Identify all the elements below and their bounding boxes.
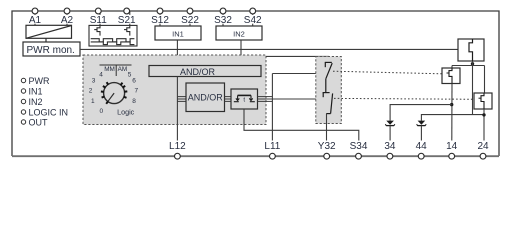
diode D2	[417, 121, 427, 141]
wire relay output to Y32	[326, 114, 328, 141]
svg-text:34: 34	[384, 141, 396, 152]
terminal A2	[61, 8, 74, 26]
wire PWR mon to output driver	[80, 48, 470, 50]
svg-text:S21: S21	[118, 15, 136, 26]
wire 34 branch	[390, 105, 452, 121]
wire S32 stub	[222, 11, 224, 26]
svg-text:1: 1	[91, 98, 95, 105]
wire A2 stub	[66, 11, 68, 25]
wire S42 stub	[252, 11, 254, 26]
svg-text:3: 3	[92, 77, 96, 84]
enclosure outline	[12, 11, 499, 156]
junction dot Q1 out	[471, 62, 474, 65]
input block IN2	[216, 26, 262, 40]
wire S12 stub	[159, 11, 161, 26]
LED IN2	[21, 97, 42, 107]
terminal 24	[477, 141, 490, 159]
terminal L11	[264, 141, 281, 159]
wire A1 stub	[34, 11, 36, 25]
svg-text:OUT: OUT	[29, 117, 49, 127]
svg-text:L12: L12	[169, 141, 186, 152]
wire IN1 to AND/OR	[176, 40, 178, 66]
transistor switch S11	[97, 25, 100, 35]
svg-text:Logic: Logic	[117, 107, 135, 116]
logic unit shaded area	[83, 55, 266, 125]
svg-text:IN2: IN2	[29, 97, 43, 107]
svg-text:AND/OR: AND/OR	[188, 93, 224, 103]
wire S22 stub	[189, 11, 191, 26]
junction dot 24/44	[482, 113, 485, 116]
relay contact K1	[325, 62, 332, 92]
svg-text:A2: A2	[61, 15, 74, 26]
terminal A1	[29, 8, 42, 26]
terminal S34	[350, 141, 368, 159]
output switch Q2	[442, 68, 460, 84]
terminal S42	[244, 8, 262, 26]
test pulse waveform A	[91, 39, 135, 42]
svg-text:14: 14	[446, 141, 458, 152]
output driver Q1	[458, 39, 484, 61]
bus lines AND/OR2 to timer	[225, 97, 232, 102]
svg-text:S12: S12	[151, 15, 169, 26]
LED OUT	[21, 117, 48, 127]
wire AND/OR1 to AND/OR2 and L12	[176, 77, 178, 141]
terminal 44	[415, 141, 428, 159]
svg-text:S32: S32	[214, 15, 232, 26]
diode D1	[385, 121, 395, 141]
terminal S12	[151, 8, 169, 26]
svg-text:0: 0	[99, 108, 103, 115]
svg-text:Y32: Y32	[318, 141, 336, 152]
terminal S11	[90, 8, 107, 26]
svg-text:LOGIC IN: LOGIC IN	[29, 107, 69, 117]
svg-text:IN2: IN2	[233, 29, 245, 38]
output switch Q3	[474, 93, 492, 109]
wire S11 stub	[99, 11, 101, 25]
bus lines into AND/OR 2	[177, 97, 186, 102]
svg-text:6: 6	[132, 77, 136, 84]
terminal S22	[181, 8, 199, 26]
selector ticks	[101, 82, 127, 104]
svg-text:MM: MM	[104, 66, 115, 73]
wire IN2 to AND/OR	[240, 40, 242, 66]
power supply unit A1/A2	[26, 25, 72, 42]
MM/AM header	[100, 64, 132, 66]
wire 44 branch	[421, 115, 484, 121]
svg-text:A1: A1	[29, 15, 42, 26]
svg-text:S22: S22	[181, 15, 199, 26]
terminal 14	[445, 141, 458, 159]
selector knob	[104, 83, 125, 104]
terminal S21	[118, 8, 136, 26]
svg-text:S34: S34	[350, 141, 368, 152]
svg-text:IN1: IN1	[29, 86, 43, 96]
mechanical link K1 dotted	[333, 71, 446, 74]
junction dot 34 link	[450, 103, 453, 106]
terminal S32	[214, 8, 232, 26]
svg-text:S42: S42	[244, 15, 262, 26]
wire L11 riser	[271, 74, 273, 141]
relay shaded area	[316, 57, 342, 124]
svg-text:PWR: PWR	[29, 76, 50, 86]
timer block	[231, 89, 258, 109]
svg-text:AND/OR: AND/OR	[180, 67, 216, 77]
svg-text:PWR mon.: PWR mon.	[27, 45, 75, 56]
svg-text:L11: L11	[264, 141, 280, 152]
svg-text:t: t	[243, 97, 245, 104]
wire S21 stub	[129, 11, 131, 25]
terminal Y32	[318, 141, 336, 159]
mechanical link K2 dotted	[334, 97, 478, 100]
LED LOGIC IN	[21, 107, 68, 117]
svg-text:4: 4	[99, 71, 103, 78]
svg-text:44: 44	[416, 141, 428, 152]
terminal L12	[169, 141, 186, 159]
LED IN1	[21, 86, 42, 96]
input block IN1	[155, 26, 201, 40]
selector digits 0-8	[89, 71, 139, 115]
rotary selector Logic	[89, 65, 139, 116]
svg-text:AM: AM	[118, 66, 128, 73]
PWR mon. block	[23, 42, 80, 56]
bus lines timer output	[258, 97, 273, 102]
test pulse waveform B	[91, 42, 135, 45]
wire logic output to relay contact K1	[266, 56, 328, 62]
wire Q3 output to 24	[483, 109, 485, 141]
bottom supply rail	[12, 155, 499, 157]
logic gate AND/OR 2	[186, 83, 225, 112]
relay contact K2	[323, 93, 333, 114]
wire Q2 output to 14	[451, 84, 453, 141]
svg-text:24: 24	[477, 141, 489, 152]
svg-text:2: 2	[89, 88, 93, 95]
wire timer output to relay contact K2	[272, 98, 320, 100]
logic gate AND/OR 1	[149, 66, 261, 77]
wire Q1 output bus	[452, 61, 485, 115]
svg-text:7: 7	[134, 88, 138, 95]
svg-text:S11: S11	[90, 15, 107, 26]
terminal 34	[384, 141, 397, 159]
wire timer to S34	[244, 109, 359, 141]
wire L11 to relay contact K1	[272, 73, 325, 75]
test pulse unit S11/S21	[89, 25, 137, 46]
svg-text:IN1: IN1	[172, 29, 184, 38]
transistor switch S21	[127, 25, 130, 35]
svg-text:8: 8	[132, 98, 136, 105]
svg-text:5: 5	[128, 71, 132, 78]
LED PWR	[21, 76, 50, 86]
